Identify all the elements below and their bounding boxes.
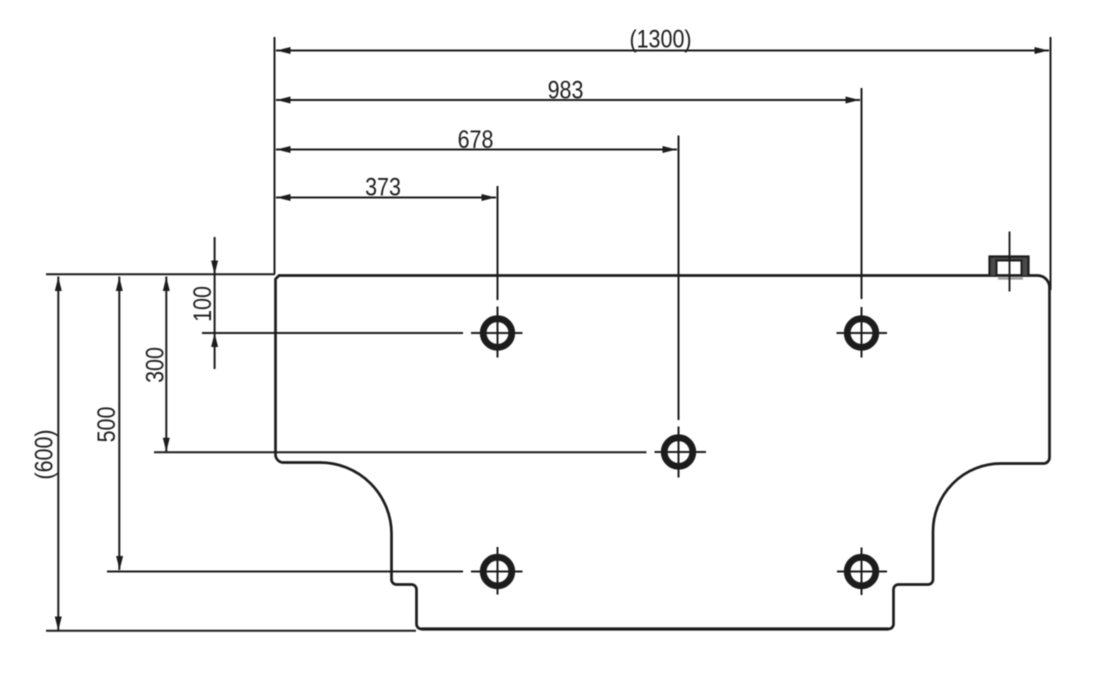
dim (1300) line [276,50,1049,52]
extension line 300 row [154,451,647,453]
svg-text:678: 678 [458,125,494,153]
tab inner [997,261,1022,277]
svg-text:(600): (600) [30,429,58,479]
dim 983 line [276,99,860,101]
svg-text:(1300): (1300) [629,25,691,53]
tab centerline [1009,232,1011,292]
svg-text:983: 983 [548,76,584,104]
svg-text:100: 100 [188,286,216,322]
hole H2 ring [664,438,693,467]
extension line 100 row [202,332,463,334]
dim 678 line [276,149,677,151]
plate outline [276,276,1050,630]
dim 300 line [165,277,167,452]
tab wall fill at top-right [990,256,1029,276]
bottom edge (thick) [422,627,889,630]
hole H3 ring [847,319,876,348]
hole H4 crosshair [471,547,523,595]
dim (600) line [57,277,59,631]
hole H4 ring [483,557,512,586]
extension line 500 row [107,571,463,573]
hole H5 ring [847,557,876,586]
hole H2 crosshair [655,451,707,453]
extension line bottom of (600) [46,630,416,632]
hole H1 crosshair [471,310,523,358]
extension line 373 vertical through hole [497,186,499,358]
dim 373 line [276,197,496,199]
dim 500 line [118,277,120,571]
hole H3 crosshair [837,310,888,358]
dim 100 line with outside arrows [214,237,216,369]
svg-text:373: 373 [365,173,401,201]
svg-text:500: 500 [92,407,120,443]
extension line top common (left dims) [46,273,275,275]
extension line left common (top dims) [274,37,276,274]
extension line right of (1300) [1050,37,1052,290]
extension line 678 vertical through hole [678,136,680,478]
hole H5 crosshair [837,548,887,596]
tab under-shadow [998,277,1023,279]
tab outer [990,257,1029,277]
hole H1 ring [483,319,512,348]
extension line 983 vertical through hole [861,88,863,358]
svg-text:300: 300 [141,347,169,383]
